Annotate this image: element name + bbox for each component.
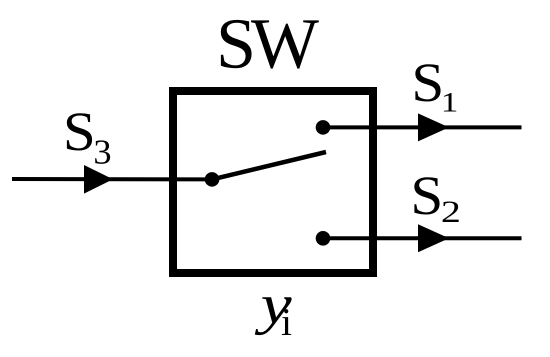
svg-text:SW: SW — [216, 4, 319, 84]
svg-text:S: S — [63, 102, 96, 163]
svg-text:S: S — [410, 166, 443, 227]
svg-text:1: 1 — [441, 87, 459, 118]
svg-text:S: S — [411, 53, 444, 114]
svg-text:2: 2 — [441, 194, 461, 229]
svg-text:3: 3 — [93, 133, 111, 172]
svg-text:i: i — [281, 301, 292, 344]
